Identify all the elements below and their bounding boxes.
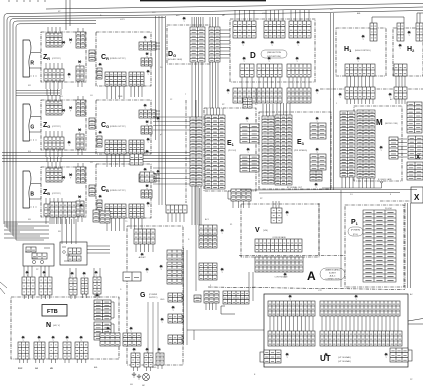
label CR <box>101 54 109 61</box>
wire strip column tails <box>192 186 201 225</box>
connector Y UT-1 <box>289 295 292 301</box>
wire left bus 5 <box>16 24 96 241</box>
svg-text:B: B <box>30 192 34 198</box>
svg-text:ACDET: ACDET <box>139 256 147 259</box>
wire H2 comb <box>396 76 405 87</box>
connector mid x130 <box>130 154 143 165</box>
connector UT strip 1a <box>268 301 315 316</box>
connector E3 right-c <box>310 171 322 181</box>
svg-text:AFC: AFC <box>176 14 181 17</box>
connector CG left strip <box>97 136 102 147</box>
wire left bus to N <box>4 224 44 240</box>
connector left-of-UT grid <box>223 291 249 304</box>
connector Y H1-a <box>362 35 365 41</box>
connector mid x140 <box>140 172 154 182</box>
svg-text:(DRIVE OUT PC): (DRIVE OUT PC) <box>110 126 126 128</box>
wire M strip tails <box>342 177 353 188</box>
block CR enclosure <box>96 32 151 86</box>
ground bottom 1 <box>132 372 136 377</box>
svg-text:A-B-C: A-B-C <box>330 274 336 277</box>
connector Y CR-a <box>144 36 147 42</box>
connector D bottom-1 <box>233 88 256 103</box>
connector Y ZR-b <box>69 39 72 45</box>
connector Y UT-5 <box>385 353 388 359</box>
plug N4 <box>63 342 71 363</box>
connector Y E3-a <box>316 117 319 123</box>
connector H2 grid <box>394 64 407 76</box>
svg-text:G: G <box>30 125 34 131</box>
connector D mid-1 <box>240 64 254 77</box>
connector ZG top-right <box>76 100 85 116</box>
connector Y D-3 <box>297 41 300 47</box>
connector Y N-4 <box>66 336 69 342</box>
svg-text:CG: CG <box>101 122 109 129</box>
svg-text:(CRT PC): (CRT PC) <box>52 126 61 128</box>
connector E1 right-b <box>240 155 259 172</box>
connector ZG bottom-right <box>76 134 84 149</box>
connector CR bottom-1 <box>105 72 126 86</box>
connector M right grid <box>389 137 398 159</box>
connector Y CR-d <box>147 70 150 76</box>
connector Y N-5 <box>80 336 83 342</box>
connector H2 plug b <box>416 23 423 41</box>
block V enclosure <box>241 204 319 257</box>
svg-text:(VM): (VM) <box>263 230 268 232</box>
svg-text:(POWER): (POWER) <box>351 230 361 232</box>
block M enclosure <box>354 106 402 181</box>
wire links under ZR <box>16 91 60 96</box>
connector Y CG-a <box>144 104 147 110</box>
label CG <box>101 122 109 129</box>
connector D mid-3 <box>287 64 311 77</box>
wire E3 bottom bus 1 <box>240 189 417 192</box>
svg-text:(UT SIGNAL): (UT SIGNAL) <box>338 360 351 363</box>
connector Y ZR-c <box>78 61 81 67</box>
wire UT exit right <box>408 319 423 325</box>
connector ZR output <box>89 50 95 61</box>
wire top edge stubs <box>9 0 70 30</box>
block H1 enclosure <box>336 28 386 76</box>
label ZG <box>43 122 50 129</box>
svg-text:FTB: FTB <box>47 309 58 315</box>
connector Y UT-4 <box>325 353 328 359</box>
connector Y CR-b <box>146 53 149 59</box>
connector Y R201 <box>146 268 149 274</box>
connector mid x166 wide <box>166 205 187 213</box>
svg-text:G: G <box>140 292 146 299</box>
connector D top-1 <box>233 21 256 38</box>
connector bottom-mid grid 2 <box>123 333 141 346</box>
connector Y G-2 <box>172 306 175 312</box>
connector bottom-mid grid 1 <box>100 333 120 346</box>
connector G top grid <box>134 229 155 244</box>
connector UT left <box>264 350 281 363</box>
svg-text:X: X <box>416 155 420 161</box>
connector Y ZG-d <box>68 141 71 147</box>
wire M down-left <box>322 183 382 188</box>
note A <box>320 268 345 280</box>
connector ZG output <box>89 118 95 129</box>
connector Y ZB-c <box>78 196 81 202</box>
boundary dash x405 vertical <box>404 203 406 289</box>
connector Y D-4 <box>243 57 246 63</box>
svg-text:H1: H1 <box>344 46 352 53</box>
wire low bus turns to convergence boxes <box>4 222 49 238</box>
connector D top-2 <box>264 21 285 38</box>
wire bus x155-166 vertical <box>156 16 166 205</box>
svg-text:IF CHECK LAND: IF CHECK LAND <box>378 178 392 181</box>
connector Y CB-b <box>146 185 149 191</box>
svg-text:(CRT PC): (CRT PC) <box>52 58 61 60</box>
connector mid-col small <box>194 295 201 302</box>
connector ZB top-right <box>76 167 85 183</box>
connector Y midcol-1 <box>221 229 224 235</box>
wire left bus 3 <box>10 18 165 233</box>
connector M strip a <box>340 111 355 177</box>
block convergence box 2 <box>60 242 87 265</box>
block E1 enclosure <box>204 108 256 191</box>
wire DG strip2 tails down <box>210 62 218 108</box>
wire ZB bottom drops <box>62 219 76 244</box>
block G enclosure <box>127 226 183 365</box>
block convergence box 1 <box>23 244 54 266</box>
connector N right table 1 <box>94 300 111 320</box>
block E3 enclosure <box>259 112 331 189</box>
svg-text:SUPPLY): SUPPLY) <box>149 297 158 299</box>
svg-text:N: N <box>46 322 51 329</box>
svg-text:BT SIGNAL OUT: BT SIGNAL OUT <box>287 186 303 189</box>
connector Y H1-b <box>357 57 360 63</box>
connector CB right-2 <box>141 190 152 198</box>
connector ZB top-left <box>46 168 62 182</box>
connector CB right strip <box>93 210 99 222</box>
connector Y mid-3 <box>157 170 160 176</box>
wire vertical pair x330 <box>331 13 334 190</box>
connector Y BP-3 <box>158 348 161 354</box>
CRT gun B <box>23 171 41 208</box>
connector Y conv-3 <box>71 272 74 278</box>
block FTB <box>42 305 67 317</box>
note D <box>261 50 287 58</box>
connector mid-col grid 2 <box>199 236 217 248</box>
svg-text:V: V <box>255 227 260 234</box>
connector Y ZG-a <box>62 109 65 115</box>
svg-text:ZR: ZR <box>43 54 50 61</box>
svg-text:H.DY: H.DY <box>120 19 125 21</box>
connector H2 plug a <box>397 23 404 41</box>
svg-text:M: M <box>376 118 383 127</box>
connector mid-col grid 3 <box>199 263 217 280</box>
boundary dash x319 vertical <box>318 203 320 255</box>
wire UT combs <box>270 316 313 331</box>
connector CR right-2 <box>141 58 152 66</box>
svg-text:(P.S.): (P.S.) <box>353 234 358 236</box>
plug conv 2 <box>39 277 52 299</box>
connector Y UT-3 <box>286 353 289 359</box>
boundary dash x186 <box>185 100 187 203</box>
wire Z R-G links <box>47 89 61 95</box>
connector Y CB-a <box>144 168 147 174</box>
label M <box>376 118 383 127</box>
connector D bottom-2 <box>257 88 282 103</box>
lamp bottom <box>143 374 150 381</box>
wire top bus 1 <box>46 4 423 10</box>
connector CB bottom-2 <box>129 204 144 218</box>
connector CG right-1 <box>139 110 156 118</box>
label DG <box>168 51 176 58</box>
boundary V bottom dash <box>239 255 345 257</box>
connector Y ACDET <box>139 253 147 259</box>
connector ZB bottom-right <box>76 201 84 216</box>
connector V grid b <box>255 257 303 272</box>
wire C-E horizontal links <box>153 117 190 130</box>
wire Z G-B links <box>47 157 61 162</box>
svg-text:DEG: DEG <box>152 367 157 369</box>
wire top bus 3 wrapping to left bus <box>7 11 423 229</box>
connector Y E3-c <box>315 183 318 189</box>
connector right-col grid 2 <box>408 136 423 159</box>
wire top edge dark segment <box>140 0 266 2</box>
connector Y CG-b <box>146 121 149 127</box>
svg-text:(H/V AFC GEN): (H/V AFC GEN) <box>168 58 182 61</box>
connector E3 right-a <box>310 123 326 139</box>
svg-text:(UT SIGNAL): (UT SIGNAL) <box>338 356 351 359</box>
wire mid bus group to E area <box>2 153 190 162</box>
plug conv 3 <box>69 278 77 299</box>
svg-text:DG: DG <box>168 51 176 58</box>
connector Y E3-b <box>316 148 319 154</box>
wire G to UT <box>187 330 264 340</box>
connector Y N-right <box>96 294 99 300</box>
svg-text:(DRIVE OUT PC): (DRIVE OUT PC) <box>110 190 126 192</box>
wire E1 bottom to V <box>233 201 249 208</box>
connector P main strip <box>363 210 396 282</box>
connector Y H1-c <box>339 93 342 99</box>
plug conv 5 <box>93 277 101 298</box>
connector Y conv-2 <box>43 271 46 277</box>
svg-text:(HIGH CONTROL): (HIGH CONTROL) <box>355 50 371 52</box>
connector CR right-1 <box>139 42 156 50</box>
connector E3 right-b <box>310 154 326 170</box>
connector CB bottom-1 <box>105 204 126 218</box>
svg-text:R: R <box>30 61 34 67</box>
connector E1 main strip <box>205 115 225 189</box>
connector E1 bottom grid <box>231 189 251 201</box>
block DG enclosure <box>167 25 210 64</box>
connector Y V-2 <box>284 273 287 279</box>
connector Y V-1 <box>286 211 289 217</box>
wire DG strip1 tails down <box>192 62 202 117</box>
connector Y M-1 <box>380 146 383 152</box>
wire DG to D links <box>220 30 230 58</box>
connector G right-2 <box>167 262 182 284</box>
svg-text:X: X <box>414 193 420 202</box>
connector ZR bottom-left <box>44 69 64 81</box>
connector Y N-3 <box>52 336 55 342</box>
connector Y midcol-2 <box>221 268 224 274</box>
connector G right-4 <box>168 314 182 323</box>
label CB <box>101 186 109 193</box>
connector Y E1-a <box>246 117 249 123</box>
svg-text:D: D <box>250 51 256 60</box>
block X <box>411 187 423 203</box>
block CG enclosure <box>96 100 151 154</box>
connector UT strip 2a <box>268 331 315 346</box>
svg-text:(PIX SPEED): (PIX SPEED) <box>294 150 307 152</box>
connector ZB bottom wide <box>50 202 76 217</box>
connector mid-col grid 1 <box>199 225 217 235</box>
svg-text:FOC: FOC <box>18 368 23 370</box>
label ZB <box>43 189 50 196</box>
plug bottom 3 <box>156 353 164 369</box>
wire left bus 4 <box>13 21 96 237</box>
connector DG pin strip 1 <box>190 27 205 62</box>
block H2 enclosure <box>393 28 423 76</box>
connector CB left strip <box>97 200 102 211</box>
wire H1 lower tails <box>347 99 373 104</box>
svg-text:(DEFLECTION: (DEFLECTION <box>267 52 281 54</box>
svg-text:(POWER: (POWER <box>149 294 158 296</box>
junction M check <box>381 181 383 183</box>
plug N5 <box>75 342 88 363</box>
boundary dash X left <box>380 200 410 202</box>
CRT gun R <box>23 40 41 77</box>
plug bottom 1 <box>131 353 140 371</box>
connector ZR top-right <box>76 32 85 48</box>
svg-text:(CRT PC): (CRT PC) <box>52 193 61 195</box>
svg-text:(MICRO COM): (MICRO COM) <box>385 123 398 125</box>
connector Y mid-2 <box>146 150 149 156</box>
wire conv plugs feeds <box>24 266 32 277</box>
wire diag bottom left <box>0 282 7 294</box>
connector Y CG-d <box>147 138 150 144</box>
svg-text:(HV, V): (HV, V) <box>53 325 60 327</box>
connector Y UT-2 <box>355 295 358 301</box>
connector Y CB-c <box>99 195 102 198</box>
connector G right-3 <box>168 293 182 302</box>
connector M strip b <box>357 110 375 178</box>
connector CG bottom-2 <box>129 140 144 154</box>
connector CB right strip 2 <box>100 211 110 223</box>
connector Y E1-b <box>247 148 250 154</box>
svg-text:CR: CR <box>101 54 109 61</box>
svg-text:E3: E3 <box>297 139 305 146</box>
block ZB enclosure <box>41 167 86 217</box>
connector N right table 2 <box>94 322 111 340</box>
wire D mid to bottom combs <box>242 77 252 88</box>
connector V top plug <box>271 208 282 223</box>
connector D top-3 <box>289 21 311 38</box>
svg-text:CB: CB <box>101 186 109 193</box>
svg-text:(PC/J-2): (PC/J-2) <box>228 150 236 152</box>
connector ZR bottom-right <box>76 66 84 81</box>
connector UT strip 1b <box>320 301 400 316</box>
connector Y ZR-d <box>68 73 71 79</box>
connector Y D-5 <box>268 57 271 63</box>
label N <box>46 322 51 329</box>
label G <box>140 292 146 299</box>
plug N1 <box>18 342 29 363</box>
connector D bottom-3 <box>287 88 311 103</box>
wire H jumper <box>372 13 423 23</box>
connector Y conv-1 <box>26 271 29 277</box>
connector CB right-1 <box>139 174 156 182</box>
svg-text:PLG NO: PLG NO <box>385 208 393 210</box>
connector D mid-2 <box>257 64 282 77</box>
block ZR enclosure <box>41 32 86 82</box>
label H1 <box>344 46 352 53</box>
connector G right-5 <box>168 335 182 344</box>
label D <box>250 51 256 60</box>
connector G right-1 <box>167 250 182 260</box>
connector E3 strip a <box>262 116 274 184</box>
wire H2 lower tails <box>396 99 405 104</box>
connector Y DG <box>183 17 186 23</box>
connector Y CB-d <box>147 202 150 208</box>
label UT <box>320 354 331 363</box>
connector Y mid-1 <box>157 117 160 123</box>
boundary dash y89 right <box>320 88 423 90</box>
connector E1 right-a <box>240 124 259 143</box>
connector Y ZR-a <box>62 41 65 47</box>
label E3 <box>297 139 305 146</box>
connector Y H2-b <box>399 44 402 50</box>
connector Y CG-c <box>99 131 102 134</box>
svg-text:V.DY: V.DY <box>262 13 267 15</box>
connector UT strip 2b <box>320 331 402 346</box>
connector Y H2-a <box>408 31 411 37</box>
connector H1 grid <box>345 64 375 76</box>
connector ZG bottom-left <box>44 137 64 149</box>
connector ZG top-left <box>46 101 62 115</box>
block ZG enclosure <box>41 100 86 150</box>
connector Y CR-c <box>99 63 102 66</box>
connector UT right <box>390 348 408 362</box>
connector CR left strip <box>97 68 102 79</box>
connector Y ZG-b <box>69 107 72 113</box>
svg-text:KG: KG <box>28 151 31 153</box>
wire top bus 2 wrapping to left bus <box>4 7 423 224</box>
svg-text:ZG: ZG <box>43 122 50 129</box>
block CB enclosure <box>96 164 151 218</box>
connector Y ZG-c <box>78 129 81 135</box>
connector DG pin strip 2 <box>209 27 220 62</box>
connector Y H2-c <box>389 93 392 99</box>
connector Y BM-1 <box>107 327 110 333</box>
wire left of P vertical <box>340 190 342 287</box>
label ZR <box>43 54 50 61</box>
wire G vertical pair <box>184 248 188 345</box>
connector Y conv-4 <box>83 272 86 278</box>
plug N2 <box>34 342 45 363</box>
svg-text:E1: E1 <box>227 140 235 147</box>
svg-text:CONT M BASE: CONT M BASE <box>275 276 289 279</box>
svg-text:A: A <box>307 269 316 283</box>
connector Y D-1 <box>242 41 245 47</box>
svg-text:CONNECTION: CONNECTION <box>326 278 340 280</box>
connector CR bottom-2 <box>129 72 144 86</box>
wire G bottom feeds <box>148 302 158 353</box>
connector right-col grid 3 <box>407 162 423 180</box>
connector Y ZB-b <box>69 174 72 180</box>
connector Y ZB-a <box>62 176 65 182</box>
connector ZB bottom-left <box>44 204 64 216</box>
wire H1 comb <box>347 76 373 87</box>
svg-text:H2: H2 <box>407 46 415 53</box>
connector H2 lower grid <box>394 87 407 99</box>
connector Y D-8 <box>316 89 319 95</box>
connector Y D-7 <box>227 89 230 95</box>
